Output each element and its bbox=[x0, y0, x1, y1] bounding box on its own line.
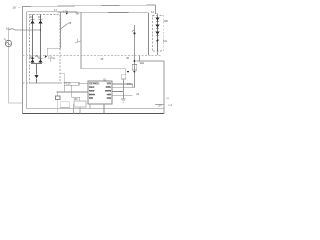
svg-text:104: 104 bbox=[158, 105, 163, 108]
svg-text:SO: SO bbox=[107, 93, 111, 97]
svg-text:BON: BON bbox=[89, 93, 95, 97]
svg-text:C1A: C1A bbox=[66, 83, 71, 86]
svg-text:30A: 30A bbox=[140, 61, 145, 65]
svg-text:Vin: Vin bbox=[76, 13, 80, 16]
svg-text:SO: SO bbox=[89, 96, 93, 100]
svg-text:CPL: CPL bbox=[106, 85, 112, 89]
svg-text:104: 104 bbox=[74, 98, 79, 101]
svg-text:U1: U1 bbox=[103, 78, 107, 82]
svg-text:C1 MCU: C1 MCU bbox=[89, 81, 99, 85]
svg-text:CL1: CL1 bbox=[89, 85, 94, 89]
svg-text:16: 16 bbox=[6, 27, 10, 31]
svg-text:SG: SG bbox=[107, 96, 111, 100]
svg-text:BON: BON bbox=[105, 89, 111, 93]
svg-text:SLA: SLA bbox=[89, 89, 94, 93]
svg-text:10: 10 bbox=[13, 6, 17, 10]
svg-text:10x: 10x bbox=[163, 39, 168, 43]
svg-text:27A: 27A bbox=[127, 83, 132, 86]
svg-text:1c4: 1c4 bbox=[168, 104, 173, 107]
svg-text:100: 100 bbox=[164, 19, 169, 23]
svg-text:GN: GN bbox=[107, 81, 111, 85]
svg-text:178: 178 bbox=[63, 10, 68, 14]
